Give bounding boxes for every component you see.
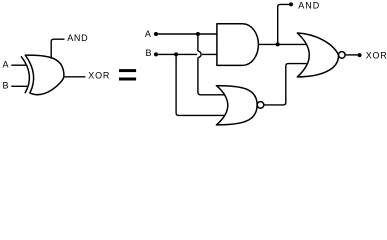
NOR gate U4 (right) body	[297, 33, 338, 77]
NOR gate U3 output bubble	[257, 102, 264, 109]
equals sign top bar	[119, 69, 136, 72]
wire AND gate output to NOR U4 upper input	[258, 43, 306, 45]
wire AND tap from XOR gate top	[51, 39, 64, 58]
terminal dot B (right)	[154, 52, 158, 56]
junction dot AND output branch	[276, 42, 280, 46]
wire XOR output (right)	[345, 54, 358, 56]
svg-text:B: B	[3, 81, 9, 91]
XOR gate U1 (left) outer input arc	[21, 56, 29, 93]
wire B to AND gate (gap under hop)	[156, 53, 217, 55]
svg-text:B: B	[146, 48, 152, 58]
wire A to AND gate	[156, 33, 217, 35]
svg-text:XOR: XOR	[88, 70, 110, 80]
wire hop over B line	[198, 51, 201, 57]
svg-text:AND: AND	[298, 1, 320, 11]
junction dot A branch	[196, 32, 200, 36]
wire NOR U3 output	[264, 64, 307, 105]
svg-text:AND: AND	[67, 33, 88, 43]
wire B to XOR gate (left)	[11, 85, 27, 87]
wire A branch down (above hop)	[197, 34, 199, 51]
terminal dot XOR output	[358, 53, 362, 57]
equals sign bottom bar	[119, 78, 136, 81]
XOR gate U1 (left) body	[25, 55, 64, 94]
NOR gate U3 (bottom) body	[216, 86, 257, 125]
terminal dot AND label	[289, 2, 293, 6]
terminal dot A (right)	[154, 32, 158, 36]
svg-text:A: A	[145, 29, 151, 39]
svg-text:XOR: XOR	[366, 50, 387, 60]
svg-text:A: A	[3, 60, 9, 70]
wire XOR output (left)	[64, 76, 86, 78]
junction dot B branch	[174, 52, 178, 56]
wire A branch down to NOR gate upper input	[198, 58, 225, 95]
AND gate U2	[217, 24, 259, 66]
wire AND output branch up to AND label	[278, 4, 290, 44]
wire B branch down to NOR gate lower input	[176, 54, 224, 115]
NOR gate U4 output bubble	[339, 52, 346, 59]
wire A to XOR gate (left)	[11, 64, 26, 66]
